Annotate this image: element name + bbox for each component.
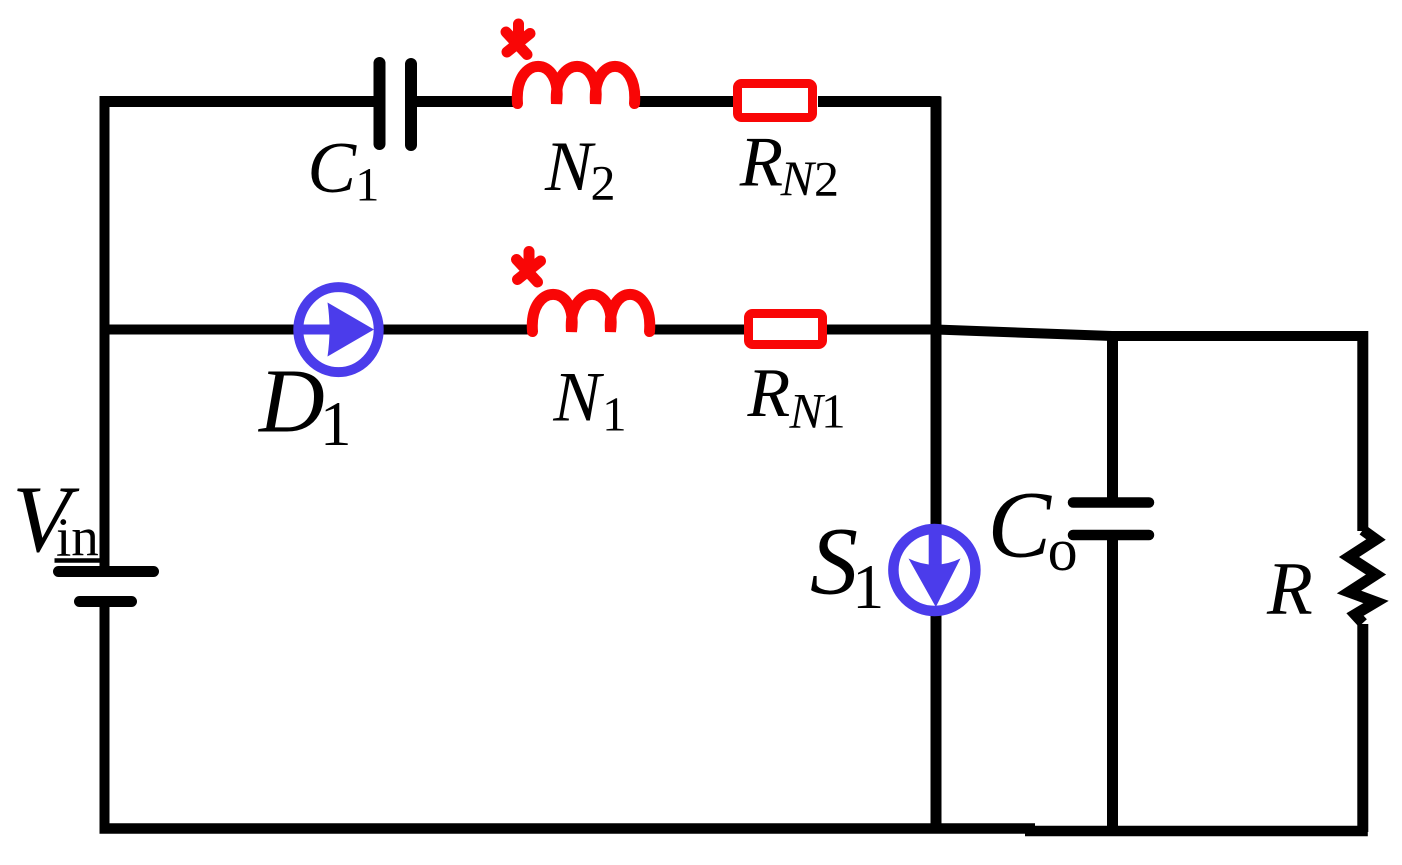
wire top-left horizontal: [100, 96, 376, 107]
svg-text:N: N: [780, 150, 817, 206]
svg-text:1: 1: [852, 551, 884, 622]
diode D1: [296, 287, 379, 372]
svg-text:R: R: [739, 123, 783, 201]
wire N1 to RN1: [646, 325, 748, 335]
svg-text:N: N: [544, 128, 596, 206]
svg-text:o: o: [1048, 517, 1078, 583]
svg-text:C: C: [307, 127, 357, 208]
svg-text:1: 1: [355, 158, 379, 211]
wire C1 to N2: [415, 96, 520, 107]
wire right vertical upper: [1357, 331, 1368, 531]
svg-text:1: 1: [602, 387, 627, 442]
capacitor C1: [380, 63, 412, 145]
wire left vertical lower: [100, 605, 110, 832]
wire bottom horizontal: [100, 823, 1036, 834]
svg-text:R: R: [1266, 548, 1313, 631]
svg-text:N: N: [789, 382, 826, 438]
inductor N1: [532, 294, 649, 331]
svg-text:C: C: [988, 472, 1053, 578]
dot marker asterisk N1: [517, 252, 541, 283]
svg-text:1: 1: [320, 389, 352, 459]
wire Co branch vertical lower: [1107, 540, 1118, 832]
svg-text:R: R: [747, 355, 791, 432]
svg-text:D: D: [257, 350, 325, 451]
wire N2 to RN2: [636, 96, 737, 107]
capacitor Co: [1073, 503, 1149, 536]
wire right vertical lower: [1357, 624, 1368, 832]
resistor RN2: [738, 84, 813, 118]
wire S1 branch vertical: [931, 97, 942, 831]
wire RN2 to top-right corner: [818, 96, 941, 107]
svg-text:2: 2: [591, 155, 616, 211]
wire Vin to D1 to N1: [100, 325, 529, 335]
svg-text:N: N: [552, 358, 604, 436]
switch S1: [893, 527, 975, 611]
svg-text:2: 2: [814, 151, 839, 207]
svg-text:1: 1: [821, 383, 846, 438]
resistor R zigzag: [1349, 530, 1376, 623]
wire left vertical upper: [100, 96, 110, 567]
dot marker asterisk N2: [506, 24, 530, 55]
svg-text:S: S: [810, 508, 858, 615]
wire RN1 to S1 junction: [823, 325, 940, 335]
wire Co branch vertical upper: [1107, 331, 1118, 498]
resistor RN1: [749, 314, 823, 345]
inductor N2: [517, 66, 634, 103]
source Vin battery: [59, 572, 154, 602]
wire S1 junction to Co junction to R corner: [936, 330, 1368, 337]
